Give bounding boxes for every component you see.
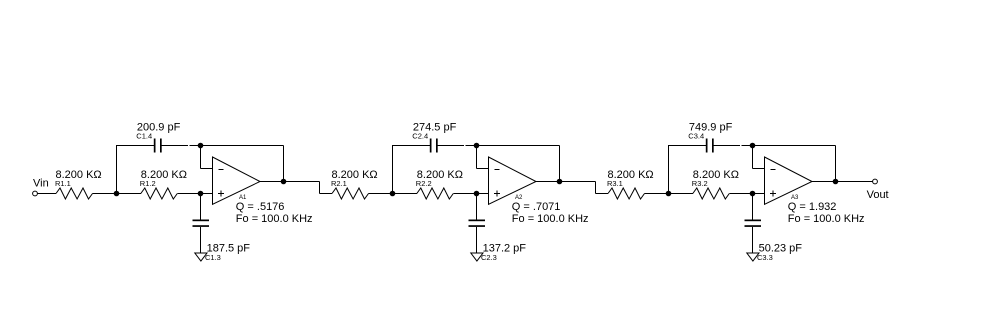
svg-text:Q = 1.932: Q = 1.932	[788, 201, 837, 213]
svg-text:C2.4: C2.4	[412, 132, 428, 141]
svg-text:C1.4: C1.4	[136, 132, 152, 141]
svg-text:C1.3: C1.3	[205, 253, 221, 262]
svg-text:R3.1: R3.1	[607, 179, 623, 188]
svg-text:Fo = 100.0 KHz: Fo = 100.0 KHz	[512, 213, 589, 225]
svg-text:C3.3: C3.3	[757, 253, 773, 262]
svg-text:C2.3: C2.3	[481, 253, 497, 262]
svg-text:C3.4: C3.4	[688, 132, 704, 141]
svg-text:R1.2: R1.2	[140, 179, 156, 188]
svg-text:Q = .5176: Q = .5176	[236, 201, 285, 213]
svg-text:Vin: Vin	[33, 178, 49, 190]
svg-text:A3: A3	[791, 195, 799, 201]
svg-text:Fo = 100.0 KHz: Fo = 100.0 KHz	[236, 213, 313, 225]
svg-text:R2.1: R2.1	[331, 179, 347, 188]
svg-text:Vout: Vout	[867, 189, 889, 201]
svg-text:R1.1: R1.1	[55, 179, 71, 188]
svg-text:R3.2: R3.2	[692, 179, 708, 188]
svg-text:R2.2: R2.2	[416, 179, 432, 188]
svg-text:Fo = 100.0 KHz: Fo = 100.0 KHz	[788, 213, 865, 225]
svg-text:Q = .7071: Q = .7071	[512, 201, 561, 213]
svg-text:A2: A2	[515, 195, 523, 201]
svg-text:A1: A1	[239, 195, 247, 201]
